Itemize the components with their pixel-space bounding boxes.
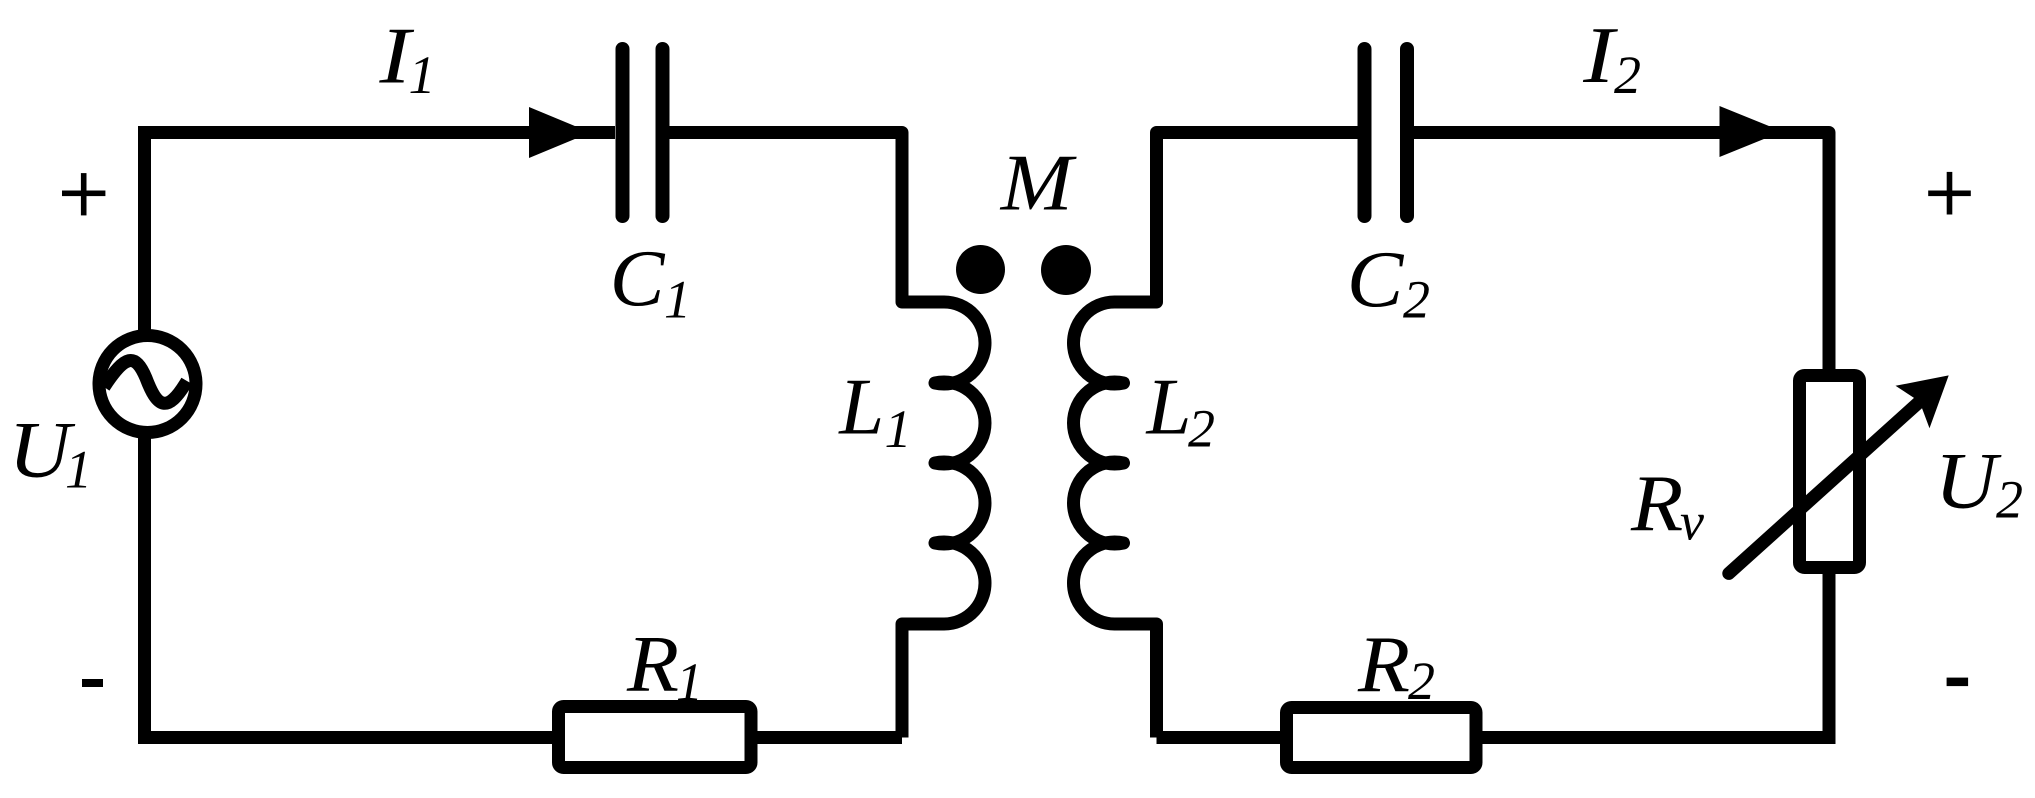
- inductor L1 with wire from C1: [662, 133, 985, 738]
- svg-text:v: v: [1680, 492, 1704, 552]
- inductor L2 with wire to C2: [1073, 133, 1366, 738]
- AC source U1 sine wave: [104, 361, 187, 404]
- wire bottom-left (source to R1): [138, 731, 552, 744]
- label minus right: [1947, 678, 1969, 687]
- svg-text:1: 1: [409, 45, 436, 105]
- svg-text:2: 2: [1614, 45, 1641, 105]
- variable resistor Rv body: [1800, 376, 1860, 568]
- svg-text:1: 1: [65, 440, 92, 500]
- current arrow I2: [1720, 106, 1783, 157]
- svg-text:C: C: [1347, 236, 1405, 324]
- svg-text:2: 2: [1403, 270, 1430, 330]
- variable resistor Rv arrow shaft: [1729, 400, 1922, 574]
- svg-text:1: 1: [664, 270, 691, 330]
- svg-text:1: 1: [885, 399, 912, 459]
- svg-text:R: R: [1630, 459, 1683, 548]
- transformer dot right (L2 polarity): [1041, 245, 1091, 295]
- capacitor C2 left plate: [1358, 49, 1372, 216]
- wire top-right (C2 to Rv): [1407, 133, 1829, 370]
- wire top-left (source to C1): [145, 126, 616, 139]
- svg-text:2: 2: [1188, 399, 1215, 459]
- wire bottom-middle-left (R1 to L1): [757, 731, 902, 744]
- label plus left: [62, 173, 105, 215]
- label minus left: [82, 679, 103, 687]
- wire left vertical upper (source plus terminal): [138, 126, 151, 337]
- svg-text:M: M: [1000, 139, 1078, 227]
- svg-text:U: U: [1935, 436, 2002, 525]
- svg-text:R: R: [626, 619, 679, 708]
- svg-text:2: 2: [1996, 470, 2023, 530]
- wire bottom-right (R2 to Rv branch): [1482, 731, 1836, 744]
- svg-text:2: 2: [1408, 651, 1435, 711]
- variable resistor Rv arrowhead: [1896, 375, 1949, 428]
- resistor R1 body: [559, 707, 752, 768]
- svg-text:C: C: [610, 234, 666, 323]
- current arrow I1: [529, 107, 591, 158]
- svg-text:R: R: [1357, 619, 1410, 708]
- svg-text:L: L: [838, 363, 884, 452]
- wire right vertical lower (Rv to bottom): [1823, 573, 1836, 738]
- resistor R2 body: [1287, 708, 1477, 768]
- capacitor C1 left plate: [616, 49, 630, 216]
- transformer dot left (L1 polarity): [956, 245, 1005, 294]
- wire bottom-middle-right (L2 to R2): [1157, 731, 1281, 744]
- label plus right: [1928, 172, 1971, 215]
- svg-text:1: 1: [676, 652, 703, 712]
- AC source U1 circle: [99, 336, 196, 433]
- capacitor C2 right plate: [1400, 49, 1414, 216]
- capacitor C1 right plate: [656, 49, 670, 216]
- svg-text:L: L: [1145, 363, 1191, 452]
- wire left vertical lower (source minus terminal): [138, 432, 151, 738]
